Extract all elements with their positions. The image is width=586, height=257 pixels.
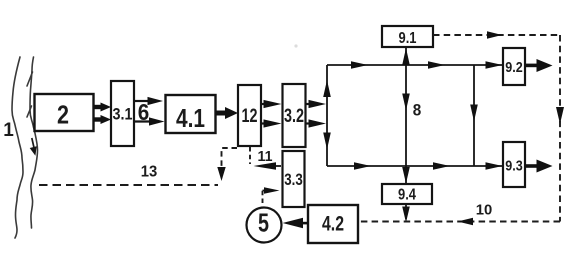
dashed wire 9.1 to right rail [433, 34, 559, 36]
down arrowhead into 9.4 [402, 167, 410, 184]
svg-text:4.1: 4.1 [176, 103, 205, 133]
block 9.2 [503, 48, 525, 85]
arrowhead into 9.2 [486, 61, 503, 69]
arrowhead on dashed 9.1 wire [487, 31, 502, 39]
block 3.2 [283, 84, 306, 147]
down arrowhead onto wire 13 [217, 167, 225, 181]
svg-text:12: 12 [242, 106, 258, 127]
thick arrow 2 to 3.1 (lower) [94, 115, 111, 124]
left arrowhead on wire 10 [458, 218, 474, 226]
arrow 12 to 3.2 (lower) [261, 119, 282, 127]
svg-text:3.3: 3.3 [284, 170, 303, 189]
down arrowhead on right dashed rail [556, 107, 564, 124]
svg-text:10: 10 [476, 202, 493, 219]
thick arrow 4.2 to 5 [283, 218, 309, 228]
svg-text:3.1: 3.1 [113, 105, 133, 124]
block 12 [238, 85, 261, 146]
svg-text:13: 13 [141, 164, 158, 181]
down arrowhead from 9.4 [402, 207, 410, 223]
arrow 3.1 to 4.1 (upper) [134, 97, 163, 105]
svg-text:11: 11 [258, 148, 273, 165]
top distribution wire [327, 64, 503, 66]
down arrowhead on right vertical wire [470, 105, 478, 122]
arrowhead on top wire (second) [428, 61, 445, 69]
svg-text:9.3: 9.3 [505, 158, 523, 175]
dashed wire 5 to 3.3 [262, 191, 264, 204]
block 4.1 [166, 95, 216, 133]
dashed return wire 13 [39, 184, 218, 186]
svg-text:5: 5 [258, 208, 269, 238]
arrowhead on top wire (first) [351, 61, 368, 69]
vertical wire 9.1 / 8 / 9.4 [405, 47, 407, 184]
down arrowhead node 8 [402, 94, 410, 111]
svg-text:2: 2 [57, 100, 69, 130]
bottom distribution wire [327, 165, 503, 167]
right arrowhead into 3.3 [263, 187, 280, 194]
river / stream (source water) [12, 57, 38, 238]
svg-text:9.2: 9.2 [505, 59, 523, 76]
svg-text:1: 1 [3, 120, 14, 141]
arrow 3.2 to collector rail (upper) [306, 100, 327, 108]
faint speck [294, 44, 297, 47]
block 9.1 [382, 26, 433, 47]
block 3.1 [111, 81, 134, 146]
down arrowhead on collector rail [323, 133, 331, 150]
block 4.2 [308, 205, 358, 243]
thick output arrow from 9.3 [525, 160, 553, 173]
left arrowhead on wire 11 [254, 162, 282, 169]
up arrowhead on collector rail [323, 80, 331, 97]
thick arrow 2 to 3.1 (upper) [94, 103, 111, 112]
right vertical wire top-to-bottom [473, 65, 475, 166]
flow arrow on river [30, 138, 37, 156]
dashed branch from 12 down (to wire 13) [222, 148, 238, 170]
block 9.3 [503, 142, 525, 187]
right dashed rail [559, 35, 561, 222]
svg-text:4.2: 4.2 [322, 213, 344, 236]
arrowhead on bottom wire (second) [433, 162, 450, 170]
svg-text:9.4: 9.4 [398, 187, 416, 204]
dashed return wire 10 [359, 221, 560, 223]
arrow 12 to 3.2 (upper) [261, 100, 282, 108]
up arrowhead into 9.1 [402, 48, 410, 65]
wire 9.4 down to return line [405, 204, 407, 219]
arrow 3.2 to collector rail (lower) [306, 119, 327, 127]
svg-text:9.1: 9.1 [399, 30, 417, 47]
svg-text:3.2: 3.2 [284, 106, 304, 127]
arrow 3.1 to 4.1 (lower) [134, 117, 165, 125]
mixer circle 5 [247, 208, 282, 243]
block 3.3 [283, 151, 305, 207]
thick output arrow from 9.2 [525, 59, 553, 72]
arrowhead into 9.3 [486, 162, 503, 170]
arrowhead on bottom wire (first) [354, 162, 371, 170]
collector rail (vertical) [326, 65, 328, 166]
block 2 [35, 94, 94, 131]
block 9.4 [382, 184, 432, 204]
svg-text:8: 8 [413, 102, 422, 120]
thick arrow 4.1 to 12 [216, 107, 238, 119]
dashed wire 11 from 3.3 to 12 [249, 147, 251, 164]
